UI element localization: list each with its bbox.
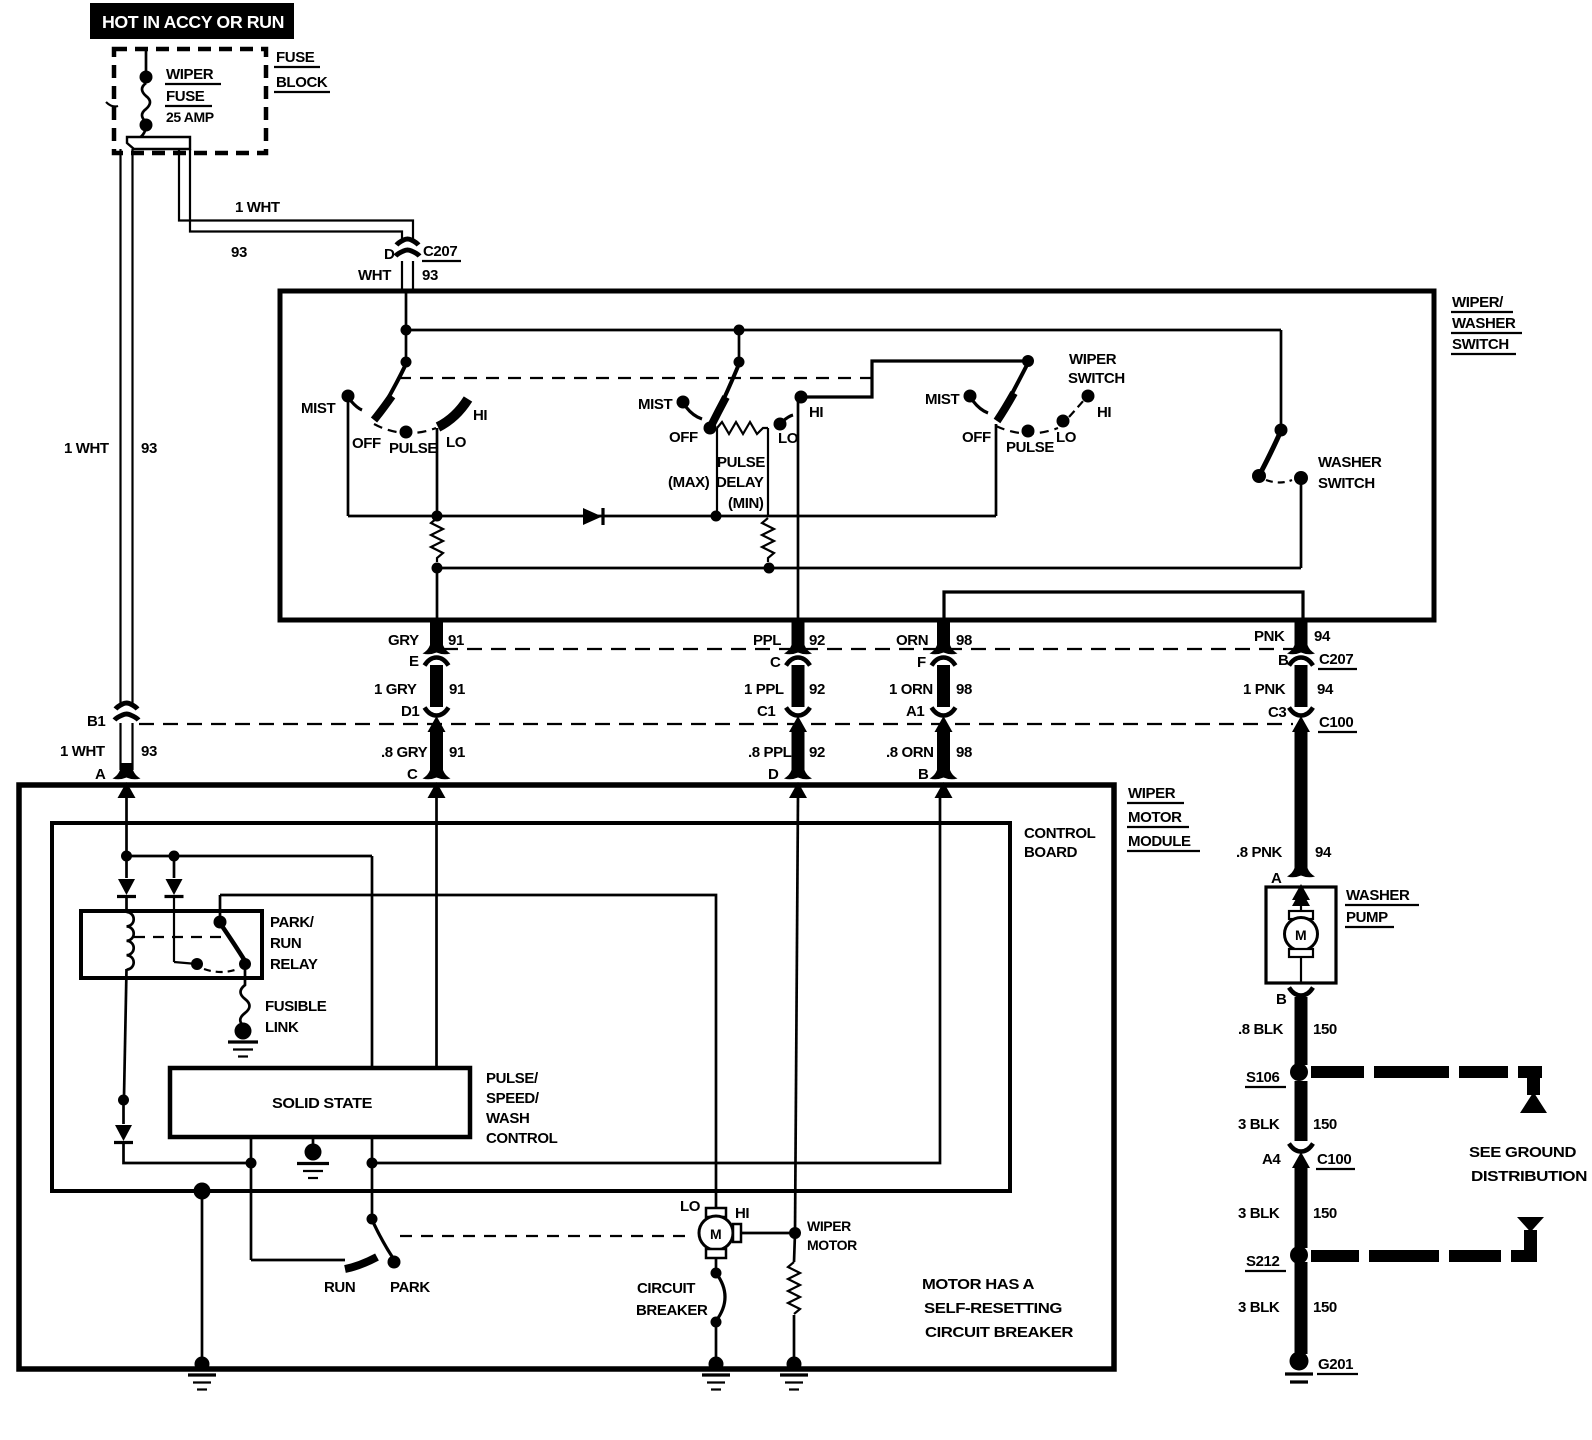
wire ORN link: [944, 592, 1303, 620]
svg-text:150: 150: [1313, 1116, 1337, 1133]
svg-text:C3: C3: [1268, 704, 1286, 721]
svg-text:A: A: [95, 766, 106, 783]
resistor motor HI to ground: [788, 1233, 800, 1362]
wire GRY 91 column: [423, 620, 451, 798]
svg-text:CONTROL: CONTROL: [1024, 825, 1096, 842]
svg-text:BLOCK: BLOCK: [276, 74, 328, 91]
wire OFF3 down to pulse line: [995, 424, 998, 516]
wire WHT feed into box: [405, 291, 408, 330]
svg-text:.8 GRY: .8 GRY: [381, 744, 428, 761]
svg-text:WASH: WASH: [486, 1110, 529, 1127]
wire solid state to run contact: [250, 1137, 253, 1260]
svg-text:BREAKER: BREAKER: [636, 1302, 708, 1319]
svg-text:1 WHT: 1 WHT: [60, 743, 105, 760]
svg-text:PPL: PPL: [753, 632, 781, 649]
svg-text:92: 92: [809, 744, 825, 761]
wiper motor: [699, 1208, 801, 1258]
svg-text:RUN: RUN: [324, 1279, 355, 1296]
svg-text:1 WHT: 1 WHT: [64, 440, 109, 457]
svg-text:25 AMP: 25 AMP: [166, 109, 214, 125]
svg-text:C100: C100: [1319, 714, 1353, 731]
wire dashed to ground distribution (upper): [1311, 1066, 1547, 1113]
wire 1 WHT 93 left drop (to module pin A): [121, 149, 133, 705]
svg-text:D1: D1: [401, 703, 419, 720]
svg-text:150: 150: [1313, 1021, 1337, 1038]
svg-text:94: 94: [1317, 681, 1334, 698]
wire coil to lower diode: [124, 969, 127, 1097]
svg-text:A1: A1: [906, 703, 924, 720]
ground solid state: [297, 1137, 329, 1178]
resistor pulse delay (variable): [717, 422, 768, 434]
wire 1 WHT 93 lower left with B1 connector: [113, 703, 141, 798]
wiper switch pole 2: [677, 330, 808, 435]
svg-text:LO: LO: [680, 1198, 701, 1215]
wiper fuse 25A symbol: [106, 49, 153, 140]
svg-text:MOTOR HAS A: MOTOR HAS A: [922, 1276, 1035, 1293]
wire 3 BLK 150 (middle): [1295, 1166, 1308, 1248]
wire 3 BLK 150 (lower): [1295, 1262, 1308, 1354]
svg-text:ORN: ORN: [896, 632, 928, 649]
svg-text:FUSE: FUSE: [166, 88, 205, 105]
wiper/washer switch label: [1451, 294, 1522, 354]
svg-text:WASHER: WASHER: [1452, 315, 1516, 332]
svg-text:DELAY: DELAY: [716, 474, 764, 491]
wire PNK 94 column: [1287, 620, 1315, 900]
svg-text:F: F: [917, 654, 926, 671]
svg-text:PULSE: PULSE: [1006, 439, 1054, 456]
connector C100 pin A4: [1289, 1144, 1313, 1169]
svg-text:SOLID STATE: SOLID STATE: [272, 1095, 372, 1112]
wiper/washer switch box: [280, 291, 1434, 620]
svg-text:1 PPL: 1 PPL: [744, 681, 784, 698]
svg-text:HI: HI: [473, 407, 487, 424]
svg-text:GRY: GRY: [388, 632, 419, 649]
mechanical gang dashed line: [398, 377, 872, 379]
svg-text:(MAX): (MAX): [668, 474, 710, 491]
svg-text:WIPER: WIPER: [166, 66, 214, 83]
svg-text:D: D: [384, 246, 395, 263]
svg-text:C1: C1: [757, 703, 775, 720]
svg-text:CONTROL: CONTROL: [486, 1130, 558, 1147]
svg-text:B: B: [1278, 652, 1289, 669]
svg-text:B1: B1: [87, 713, 105, 730]
wire branch to relay contact diode: [127, 855, 373, 858]
connector C207 dashed line: [443, 648, 1294, 650]
svg-text:1 GRY: 1 GRY: [374, 681, 417, 698]
splice S212: [1290, 1246, 1308, 1264]
svg-text:C: C: [770, 654, 781, 671]
svg-text:A: A: [1271, 870, 1282, 887]
wire solid state to park pivot / ORN feed: [371, 1137, 374, 1217]
svg-text:E: E: [409, 653, 419, 670]
svg-text:C207: C207: [423, 243, 457, 260]
svg-text:91: 91: [449, 744, 465, 761]
svg-text:C207: C207: [1319, 651, 1353, 668]
svg-text:(MIN): (MIN): [728, 495, 764, 512]
ground G201: [1285, 1352, 1313, 1383]
svg-text:LO: LO: [778, 430, 799, 447]
svg-text:.8 PNK: .8 PNK: [1236, 844, 1283, 861]
svg-text:93: 93: [141, 440, 157, 457]
fuse block label: [274, 49, 330, 92]
svg-text:MOTOR: MOTOR: [807, 1237, 857, 1253]
svg-text:WIPER: WIPER: [1069, 351, 1117, 368]
svg-text:B: B: [1276, 991, 1287, 1008]
svg-text:S106: S106: [1246, 1069, 1279, 1086]
svg-text:RELAY: RELAY: [270, 956, 318, 973]
svg-text:C: C: [407, 766, 418, 783]
svg-text:.8 PPL: .8 PPL: [748, 744, 792, 761]
wire LO1 down: [436, 428, 439, 516]
svg-text:PARK/: PARK/: [270, 914, 315, 931]
wire GRY tap down: [436, 568, 439, 620]
svg-text:PARK: PARK: [390, 1279, 430, 1296]
wire wash/park line: [437, 567, 1301, 570]
connector C100 dashed line: [139, 723, 1293, 725]
washer pump box: [1266, 887, 1336, 983]
wire dashed to ground distribution (lower): [1311, 1217, 1544, 1262]
svg-text:S212: S212: [1246, 1253, 1279, 1270]
svg-text:98: 98: [956, 681, 972, 698]
svg-text:WASHER: WASHER: [1346, 887, 1410, 904]
svg-text:LO: LO: [1056, 429, 1077, 446]
svg-text:1 WHT: 1 WHT: [235, 199, 280, 216]
svg-text:SWITCH: SWITCH: [1452, 336, 1509, 353]
svg-text:WIPER: WIPER: [1128, 785, 1176, 802]
relay coil: [127, 912, 134, 970]
washer pump motor: [1285, 890, 1318, 983]
svg-text:3 BLK: 3 BLK: [1238, 1205, 1280, 1222]
svg-text:FUSIBLE: FUSIBLE: [265, 998, 327, 1015]
diode CR3: [165, 856, 184, 962]
svg-text:3 BLK: 3 BLK: [1238, 1299, 1280, 1316]
svg-text:OFF: OFF: [669, 429, 698, 446]
wire pulse delay left leg: [716, 428, 718, 516]
ground motor HI resistor: [780, 1357, 808, 1390]
svg-text:DISTRIBUTION: DISTRIBUTION: [1471, 1168, 1587, 1185]
connector C207 cavity D: [358, 239, 461, 291]
svg-text:SELF-RESETTING: SELF-RESETTING: [924, 1300, 1062, 1317]
svg-text:CIRCUIT: CIRCUIT: [637, 1280, 695, 1297]
wire MIST1 to pulse line: [347, 402, 350, 516]
svg-text:150: 150: [1313, 1205, 1337, 1222]
wire .8 BLK 150: [1295, 997, 1308, 1065]
svg-text:G201: G201: [1318, 1356, 1353, 1373]
svg-text:MIST: MIST: [925, 391, 959, 408]
park/run relay box: [81, 911, 262, 978]
park/run switch: [345, 1214, 401, 1270]
svg-text:A4: A4: [1262, 1151, 1281, 1168]
hot in accy or run label box: [90, 3, 294, 39]
svg-text:WIPER/: WIPER/: [1452, 294, 1504, 311]
svg-text:1 ORN: 1 ORN: [889, 681, 933, 698]
wire relay contact to motor LO: [220, 895, 716, 1208]
svg-text:FUSE: FUSE: [276, 49, 315, 66]
svg-text:MODULE: MODULE: [1128, 833, 1191, 850]
ground motor breaker: [702, 1357, 730, 1390]
svg-text:3 BLK: 3 BLK: [1238, 1116, 1280, 1133]
solid state box: [170, 1068, 470, 1137]
svg-text:LINK: LINK: [265, 1019, 299, 1036]
svg-text:91: 91: [448, 632, 464, 649]
mechanical dashed link motor to park switch: [400, 1235, 694, 1237]
wire pin D to motor HI: [795, 795, 798, 1233]
resistor R2: [762, 518, 774, 562]
relay mechanical dashed link: [134, 936, 222, 938]
wire PPL tap down: [797, 400, 800, 620]
relay armature and contacts: [174, 895, 251, 972]
svg-text:.8 BLK: .8 BLK: [1238, 1021, 1284, 1038]
svg-text:PULSE: PULSE: [389, 440, 437, 457]
wire branch into solid state top: [371, 856, 374, 1068]
svg-text:.8 ORN: .8 ORN: [886, 744, 934, 761]
svg-text:PULSE: PULSE: [717, 454, 765, 471]
circuit breaker: [711, 1258, 726, 1362]
svg-text:SPEED/: SPEED/: [486, 1090, 540, 1107]
svg-text:BOARD: BOARD: [1024, 844, 1078, 861]
svg-text:HI: HI: [809, 404, 823, 421]
svg-text:SWITCH: SWITCH: [1318, 475, 1375, 492]
svg-text:C100: C100: [1317, 1151, 1351, 1168]
svg-text:92: 92: [809, 681, 825, 698]
svg-text:PUMP: PUMP: [1346, 909, 1388, 926]
wire pulse delay right leg: [767, 428, 769, 516]
node supply rail: [406, 329, 1281, 332]
wiper fuse labels: [165, 66, 221, 125]
svg-text:HI: HI: [1097, 404, 1111, 421]
svg-text:SEE GROUND: SEE GROUND: [1469, 1144, 1577, 1161]
wiper motor module label: [1127, 785, 1200, 851]
diode CR1: [583, 508, 603, 525]
svg-text:MOTOR: MOTOR: [1128, 809, 1182, 826]
svg-text:OFF: OFF: [352, 435, 381, 452]
svg-text:91: 91: [449, 681, 465, 698]
svg-text:93: 93: [231, 244, 247, 261]
svg-text:B: B: [918, 766, 929, 783]
diode CR2: [117, 856, 136, 912]
svg-text:PULSE/: PULSE/: [486, 1070, 539, 1087]
wiper motor module box: [19, 785, 1114, 1369]
svg-text:CIRCUIT BREAKER: CIRCUIT BREAKER: [925, 1324, 1074, 1341]
svg-text:HI: HI: [735, 1205, 749, 1222]
wire 1 WHT 93 right run to C207 D: [179, 149, 413, 239]
splice S106: [1290, 1063, 1308, 1081]
svg-text:LO: LO: [446, 434, 467, 451]
svg-text:150: 150: [1313, 1299, 1337, 1316]
svg-text:RUN: RUN: [270, 935, 301, 952]
wiper switch pole 3: [964, 355, 1095, 438]
svg-text:WIPER: WIPER: [807, 1218, 851, 1234]
svg-text:M: M: [710, 1226, 721, 1242]
fuse output bus bar: [127, 137, 190, 149]
svg-text:M: M: [1295, 927, 1306, 943]
wire pin C into solid state: [435, 795, 438, 1068]
svg-text:WHT: WHT: [358, 267, 391, 284]
diode CR4: [114, 1100, 251, 1163]
wire 3 BLK 150 (upper): [1295, 1081, 1308, 1141]
svg-text:94: 94: [1315, 844, 1332, 861]
control board box: [52, 823, 1010, 1191]
svg-text:D: D: [768, 766, 779, 783]
connector pump pin B: [1289, 988, 1313, 996]
svg-text:92: 92: [809, 632, 825, 649]
svg-text:MIST: MIST: [301, 400, 335, 417]
resistor R1: [431, 518, 443, 562]
svg-text:93: 93: [141, 743, 157, 760]
wire pin A into board: [125, 795, 128, 853]
wiper switch pole 1: [342, 330, 469, 439]
fuse block dashed box: [114, 49, 266, 153]
svg-text:93: 93: [422, 267, 438, 284]
svg-text:1 PNK: 1 PNK: [1243, 681, 1286, 698]
svg-text:MIST: MIST: [638, 396, 672, 413]
washer switch: [1252, 330, 1308, 568]
wire HI2 step to pole 3: [801, 361, 1028, 397]
svg-text:PNK: PNK: [1254, 628, 1285, 645]
wire ORN 98 column: [930, 620, 958, 798]
svg-text:98: 98: [956, 632, 972, 649]
svg-text:OFF: OFF: [962, 429, 991, 446]
svg-text:SWITCH: SWITCH: [1068, 370, 1125, 387]
svg-text:HOT IN ACCY OR RUN: HOT IN ACCY OR RUN: [102, 12, 284, 32]
wire PPL 92 column: [784, 620, 812, 798]
fusible link: [228, 964, 258, 1057]
svg-text:94: 94: [1314, 628, 1331, 645]
svg-text:98: 98: [956, 744, 972, 761]
svg-text:WASHER: WASHER: [1318, 454, 1382, 471]
ground module left: [188, 1183, 216, 1390]
